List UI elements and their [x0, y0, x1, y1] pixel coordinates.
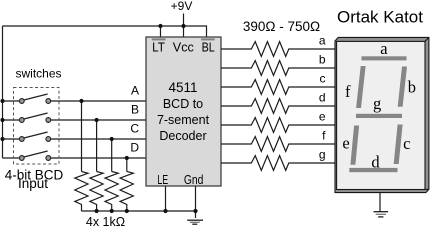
resistor R-b with wires [221, 61, 336, 76]
wire left rail [2, 26, 4, 158]
svg-text:D: D [130, 141, 139, 155]
wire row C [3, 138, 20, 140]
node: junction dots taps [79, 99, 83, 103]
svg-text:4x 1kΩ: 4x 1kΩ [86, 215, 125, 229]
switch SW3 (C) [19, 132, 50, 141]
svg-text:a: a [380, 39, 388, 58]
segment e [350, 126, 359, 165]
resistor R8 1k (D pulldown) [120, 172, 133, 212]
node: junction dots left rail [0, 99, 4, 103]
segment c [394, 125, 403, 165]
wire +9V drop to Vcc [183, 14, 185, 38]
segment d [349, 168, 397, 172]
7-segment display U2 body [335, 37, 429, 192]
svg-text:b: b [408, 78, 416, 97]
segment g [356, 114, 402, 118]
ground (IC Gnd) [187, 220, 203, 224]
svg-text:d: d [371, 153, 380, 172]
svg-text:Input: Input [18, 176, 48, 191]
switch SW1 (A) [19, 94, 50, 103]
node: junction dots top rail [0, 24, 197, 213]
wire tap D down [126, 158, 128, 172]
resistor R-e with wires [221, 118, 336, 133]
svg-text:g: g [319, 148, 326, 162]
svg-text:c: c [320, 72, 326, 86]
wire tap B down [96, 120, 98, 172]
resistor R-f with wires [221, 137, 336, 152]
svg-text:BL: BL [202, 39, 215, 54]
resistor R-g with wires [221, 156, 336, 171]
svg-text:f: f [345, 82, 351, 101]
svg-text:c: c [403, 134, 410, 153]
switch SW2 (B) [19, 113, 50, 122]
resistor R-d with wires [221, 99, 336, 114]
resistor R6 1k (B pulldown) [90, 172, 103, 212]
resistor R7 1k (C pulldown) [105, 172, 118, 212]
svg-text:e: e [342, 134, 349, 153]
svg-text:g: g [373, 94, 381, 113]
svg-text:f: f [322, 129, 326, 143]
wire LT pin stub [160, 26, 162, 37]
svg-text:Vcc: Vcc [173, 39, 194, 54]
svg-text:LT: LT [152, 39, 165, 54]
wire Gnd down [195, 186, 197, 218]
node: junction dots bottom rail [95, 209, 99, 213]
svg-text:e: e [319, 110, 326, 124]
svg-text:C: C [130, 122, 139, 136]
wire row B [3, 119, 20, 121]
wire tap A down [81, 101, 83, 172]
segment f [356, 66, 366, 108]
svg-text:4511: 4511 [168, 80, 197, 95]
wire row A [3, 100, 20, 102]
wire display ground [379, 193, 381, 212]
segment b [398, 67, 407, 107]
wire top rail +9V [3, 26, 207, 37]
switch SW4 (D) [19, 151, 50, 160]
svg-text:A: A [131, 84, 139, 98]
svg-text:Gnd: Gnd [184, 172, 204, 187]
resistor R-a with wires [221, 42, 336, 171]
svg-text:B: B [131, 103, 139, 117]
svg-text:BCD to: BCD to [163, 97, 203, 111]
ground (display) [374, 212, 389, 217]
switch box (dashed) [14, 88, 60, 165]
wire LE down [165, 186, 167, 211]
wire bottom rail [82, 210, 196, 212]
svg-text:a: a [319, 34, 326, 48]
segment a [362, 56, 407, 60]
svg-text:Decoder: Decoder [159, 129, 206, 143]
svg-text:switches: switches [16, 67, 62, 81]
wire tap C down [111, 139, 113, 172]
svg-text:Ortak Katot: Ortak Katot [337, 8, 423, 27]
op-amp U1: 4511 IC body [146, 37, 221, 186]
svg-text:+9V: +9V [171, 0, 193, 13]
svg-text:d: d [319, 91, 326, 105]
wire row D [3, 157, 20, 159]
resistor R-c with wires [221, 80, 336, 95]
svg-text:7-sement: 7-sement [157, 113, 210, 127]
svg-text:LE: LE [157, 172, 168, 187]
svg-text:390Ω - 750Ω: 390Ω - 750Ω [243, 19, 320, 34]
resistor R5 1k (A pulldown) [75, 172, 88, 212]
svg-text:b: b [319, 53, 326, 67]
